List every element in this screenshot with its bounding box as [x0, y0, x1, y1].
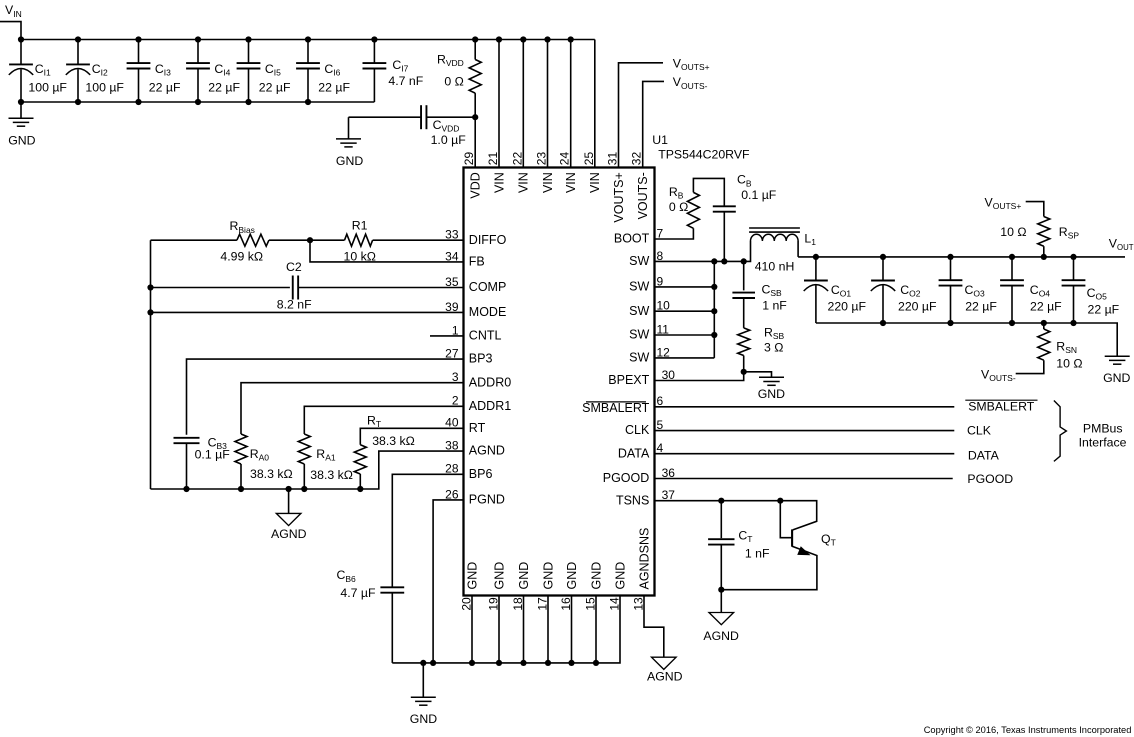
svg-text:410 nH: 410 nH — [755, 260, 795, 274]
svg-text:CLK: CLK — [967, 424, 992, 438]
svg-text:24: 24 — [558, 152, 572, 166]
svg-text:GND: GND — [517, 562, 531, 590]
svg-text:FB: FB — [469, 255, 485, 269]
svg-text:VIN: VIN — [517, 172, 531, 193]
svg-text:GND: GND — [541, 562, 555, 590]
svg-text:GND: GND — [492, 562, 506, 590]
svg-text:38.3 kΩ: 38.3 kΩ — [372, 434, 415, 448]
svg-text:32: 32 — [630, 152, 644, 166]
svg-text:DATA: DATA — [968, 448, 1000, 462]
svg-text:VOUTS-: VOUTS- — [636, 172, 650, 219]
svg-text:220 µF: 220 µF — [898, 299, 937, 313]
svg-text:100 µF: 100 µF — [85, 80, 124, 94]
svg-text:ADDR0: ADDR0 — [469, 375, 511, 389]
svg-text:0 Ω: 0 Ω — [444, 74, 463, 88]
svg-text:VIN: VIN — [541, 172, 555, 193]
svg-text:GND: GND — [565, 562, 579, 590]
svg-text:22 µF: 22 µF — [1030, 299, 1062, 313]
svg-text:AGND: AGND — [271, 527, 307, 541]
svg-text:ADDR1: ADDR1 — [469, 399, 511, 413]
svg-text:Interface: Interface — [1079, 436, 1127, 450]
svg-text:GND: GND — [613, 562, 627, 590]
svg-text:AGND: AGND — [703, 629, 739, 643]
svg-text:PGND: PGND — [469, 493, 505, 507]
svg-text:0.1 µF: 0.1 µF — [741, 188, 777, 202]
svg-text:SMBALERT: SMBALERT — [968, 399, 1035, 413]
svg-text:CNTL: CNTL — [469, 329, 502, 343]
svg-text:TSNS: TSNS — [616, 493, 649, 507]
svg-text:SW: SW — [629, 280, 649, 294]
svg-text:R1: R1 — [352, 218, 368, 232]
svg-text:22 µF: 22 µF — [259, 80, 291, 94]
svg-text:SW: SW — [629, 254, 649, 268]
svg-text:AGND: AGND — [647, 670, 683, 684]
svg-text:22 µF: 22 µF — [318, 80, 350, 94]
svg-text:BPEXT: BPEXT — [608, 373, 649, 387]
svg-text:PGOOD: PGOOD — [603, 471, 650, 485]
svg-text:BOOT: BOOT — [614, 232, 650, 246]
svg-text:29: 29 — [462, 152, 476, 166]
svg-text:38.3 kΩ: 38.3 kΩ — [250, 467, 293, 481]
svg-text:AGND: AGND — [469, 444, 505, 458]
svg-text:0.1 µF: 0.1 µF — [195, 448, 231, 462]
svg-text:3 Ω: 3 Ω — [764, 340, 783, 354]
svg-text:220 µF: 220 µF — [828, 299, 867, 313]
svg-text:25: 25 — [582, 152, 596, 166]
svg-text:GND: GND — [589, 562, 603, 590]
svg-text:PGOOD: PGOOD — [967, 472, 1013, 486]
svg-text:22 µF: 22 µF — [149, 80, 181, 94]
svg-text:Copyright © 2016, Texas Instru: Copyright © 2016, Texas Instruments Inco… — [924, 725, 1132, 735]
svg-text:22: 22 — [510, 152, 524, 166]
svg-text:VDD: VDD — [469, 172, 483, 198]
svg-text:1 nF: 1 nF — [762, 298, 787, 312]
svg-text:GND: GND — [336, 154, 363, 168]
svg-text:U1: U1 — [652, 133, 668, 147]
svg-text:PMBus: PMBus — [1083, 421, 1123, 435]
svg-text:RT: RT — [469, 421, 486, 435]
svg-text:SW: SW — [629, 351, 649, 365]
svg-text:SW: SW — [629, 328, 649, 342]
svg-text:AGNDSNS: AGNDSNS — [637, 528, 651, 590]
svg-text:1 nF: 1 nF — [745, 547, 770, 561]
svg-text:38.3 kΩ: 38.3 kΩ — [310, 468, 353, 482]
svg-text:10 Ω: 10 Ω — [1056, 357, 1082, 371]
svg-text:0 Ω: 0 Ω — [669, 200, 688, 214]
svg-text:SMBALERT: SMBALERT — [582, 401, 650, 415]
svg-text:22 µF: 22 µF — [208, 80, 240, 94]
svg-text:VOUTS+: VOUTS+ — [612, 172, 626, 222]
svg-text:GND: GND — [1103, 371, 1130, 385]
svg-text:22 µF: 22 µF — [965, 299, 997, 313]
svg-text:10 Ω: 10 Ω — [1000, 225, 1026, 239]
svg-text:BP6: BP6 — [469, 467, 493, 481]
svg-text:4.99 kΩ: 4.99 kΩ — [220, 249, 263, 263]
svg-text:GND: GND — [410, 712, 437, 726]
svg-text:22 µF: 22 µF — [1088, 303, 1120, 317]
svg-text:TPS544C20RVF: TPS544C20RVF — [658, 148, 750, 162]
svg-text:BP3: BP3 — [469, 352, 493, 366]
svg-text:21: 21 — [486, 152, 500, 166]
svg-text:23: 23 — [535, 152, 549, 166]
svg-text:VIN: VIN — [564, 172, 578, 193]
svg-text:DIFFO: DIFFO — [469, 233, 507, 247]
svg-text:8.2 nF: 8.2 nF — [277, 297, 312, 311]
svg-text:GND: GND — [465, 562, 479, 590]
svg-text:VIN: VIN — [588, 172, 602, 193]
svg-text:GND: GND — [758, 387, 785, 401]
svg-text:GND: GND — [8, 133, 35, 147]
svg-text:1.0 µF: 1.0 µF — [431, 133, 467, 147]
svg-text:CLK: CLK — [625, 423, 650, 437]
svg-text:4.7 µF: 4.7 µF — [340, 586, 376, 600]
svg-text:MODE: MODE — [469, 305, 507, 319]
svg-text:DATA: DATA — [618, 446, 650, 460]
svg-text:31: 31 — [606, 152, 620, 166]
svg-text:COMP: COMP — [469, 280, 507, 294]
svg-text:SW: SW — [629, 304, 649, 318]
svg-text:VIN: VIN — [492, 172, 506, 193]
svg-text:4.7 nF: 4.7 nF — [388, 74, 423, 88]
svg-text:100 µF: 100 µF — [28, 80, 67, 94]
svg-text:C2: C2 — [286, 260, 302, 274]
